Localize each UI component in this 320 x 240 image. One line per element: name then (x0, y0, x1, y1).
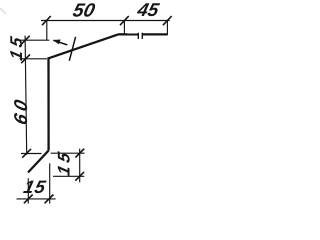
profile: top horizontal left segment (119, 33, 139, 35)
right 15 dim line vertical (79, 149, 81, 183)
ext line y=40.2 (20, 39, 50, 41)
faint scan smudge top-left (0, 8, 6, 14)
right 15 dim: ext line bottom y=176.3 (53, 175, 84, 177)
tick bottom-left (24, 195, 33, 204)
ext line y=58.8 (20, 58, 47, 60)
svg-text:15: 15 (6, 31, 26, 62)
extension line left (x=46.8) (46, 21, 48, 41)
svg-text:15: 15 (54, 147, 74, 178)
profile: vertical web (47, 57, 49, 150)
profile: sloped top line (49, 34, 119, 58)
tick right-bottom (75, 172, 84, 181)
tick right-top (75, 149, 84, 158)
extension line right (x=167.4) (166, 21, 168, 36)
svg-text:60: 60 (10, 94, 31, 127)
bottom 15 dim line (17, 198, 56, 200)
tick left-top (21, 36, 30, 45)
break symbol bar left (137, 33, 139, 39)
bottom 15 dim: ext line left x=28.3 (27, 178, 29, 203)
tick top-right (163, 16, 172, 25)
extension line middle (x=124.4) (123, 21, 125, 34)
bottom 15 dim: ext line right x=49.7 (49, 163, 51, 203)
tick top-middle (120, 16, 129, 25)
break symbol bar right (141, 33, 143, 39)
thickness leader arrow (53, 40, 67, 45)
profile: bottom 45deg diagonal (28, 151, 49, 173)
tick bottom-right (45, 195, 54, 204)
top dimension line (41, 20, 170, 22)
thickness cross stroke (69, 37, 75, 61)
tick left-bottom (22, 149, 31, 158)
tick left-mid (21, 54, 30, 63)
arrowhead (53, 40, 61, 45)
right 15 dim: ext line top y=153.2 (51, 152, 85, 154)
tick top-left (42, 16, 51, 25)
left dimension line (15 & 60) (25, 36, 27, 155)
profile: top horizontal right segment (142, 33, 167, 35)
ext line y=153.5 (21, 153, 42, 155)
